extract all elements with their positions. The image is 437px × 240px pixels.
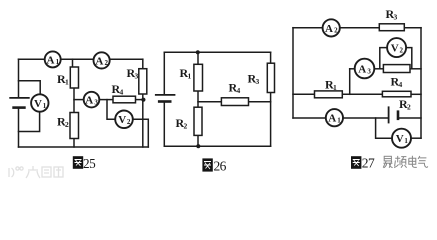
svg-text:2: 2 [105,59,109,67]
svg-text:V: V [396,133,404,145]
svg-text:4: 4 [237,86,241,95]
svg-text:27: 27 [362,156,375,171]
svg-text:2: 2 [184,122,188,131]
svg-text:1: 1 [188,72,192,81]
svg-text:A: A [95,55,103,67]
svg-text:2: 2 [407,103,411,112]
svg-text:3: 3 [394,13,398,22]
svg-text:2: 2 [65,120,69,129]
svg-text:1: 1 [337,117,341,125]
svg-text:2: 2 [400,46,404,54]
svg-text:A: A [325,23,333,35]
svg-text:V: V [34,98,42,110]
svg-text:V: V [391,43,399,55]
svg-text:A: A [328,113,336,125]
svg-text:3: 3 [256,77,260,86]
svg-text:3: 3 [135,72,139,81]
svg-text:3: 3 [367,67,371,75]
svg-text:1: 1 [56,58,60,66]
svg-text:2: 2 [127,118,131,126]
svg-text:2: 2 [334,27,338,35]
svg-text:4: 4 [399,80,403,89]
svg-text:3: 3 [94,98,98,106]
svg-text:25: 25 [83,156,96,171]
svg-text:V: V [118,114,126,126]
svg-text:26: 26 [214,159,227,174]
svg-text:A: A [47,54,55,66]
svg-text:1: 1 [43,102,47,110]
svg-text:1: 1 [333,83,337,92]
svg-text:1: 1 [65,78,69,87]
svg-text:A: A [358,63,366,75]
svg-text:4: 4 [120,88,124,97]
svg-text:A: A [85,95,93,107]
svg-text:1: 1 [404,137,408,145]
